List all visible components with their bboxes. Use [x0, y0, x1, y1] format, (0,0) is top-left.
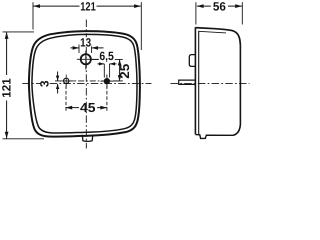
- left mounting hole: [63, 78, 68, 83]
- housing top edge: [195, 28, 240, 45]
- svg-text:25: 25: [117, 64, 132, 79]
- 56 dimension line: [197, 5, 242, 7]
- left 121 dimension line: [6, 32, 8, 138]
- mounting holes line (dash-dot): [55, 80, 121, 82]
- 3 arrows: [56, 76, 59, 81]
- horizontal centerline front view (dash-dot): [22, 83, 151, 85]
- housing inner top line: [199, 31, 226, 33]
- 56 extension lines: [195, 2, 197, 24]
- svg-text:6,5: 6,5: [99, 49, 114, 63]
- svg-text:121: 121: [80, 0, 96, 13]
- vertical centerline (dash-dot): [85, 20, 87, 149]
- right mounting hole: [104, 79, 109, 84]
- label 13: [80, 37, 92, 46]
- label 3 (rotated): [41, 79, 50, 89]
- lens front edge: [194, 27, 196, 134]
- arrowheads: [5, 4, 242, 138]
- top 121 dimension line: [33, 5, 141, 7]
- lens inner edge: [198, 31, 200, 135]
- side view centerline: [171, 83, 250, 85]
- top hole (13mm): [81, 54, 91, 64]
- front view outer outline: [29, 31, 140, 137]
- left 121 extension lines: [3, 31, 35, 33]
- svg-text:3: 3: [38, 80, 52, 87]
- 25 dimension: [119, 60, 121, 81]
- housing bottom edge with notch: [195, 135, 233, 139]
- stud tab on side view: [179, 80, 196, 84]
- 25 arrows: [118, 60, 122, 66]
- 45 arrows (pointing outward): [65, 106, 72, 110]
- 45 dimension: [65, 86, 67, 113]
- 13 arrows (pointing inward): [73, 46, 79, 50]
- 6,5 arrows (pointing inward): [99, 62, 104, 65]
- 6,5 dimension: [103, 64, 105, 78]
- 3 dimension arrows lines: [57, 72, 59, 81]
- housing right edge: [233, 45, 240, 135]
- svg-text:121: 121: [0, 78, 13, 98]
- 13 dimension: [78, 45, 80, 54]
- top 121 arrows: [33, 4, 40, 8]
- left 121 arrows: [5, 32, 9, 39]
- bottom tab of front view: [82, 135, 93, 142]
- svg-text:56: 56: [213, 0, 226, 13]
- front view inner (lens) outline: [32, 34, 137, 133]
- 56 arrows: [197, 4, 204, 8]
- label 6,5: [99, 51, 115, 61]
- svg-text:13: 13: [80, 35, 91, 49]
- top 121 extension lines: [32, 2, 34, 29]
- mounting clip bump on side view left edge: [189, 55, 195, 67]
- svg-text:45: 45: [80, 100, 96, 115]
